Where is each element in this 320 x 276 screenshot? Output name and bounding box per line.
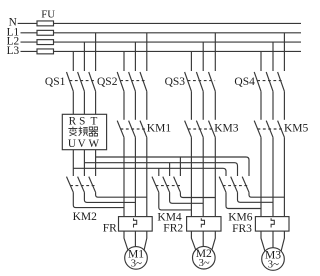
svg-text:S: S (79, 116, 85, 128)
switch QS4 linkage (dashed) (257, 80, 284, 82)
wire QS1 pole drops from buses L3 L2 L1 (72, 51, 74, 71)
switch QS2 blades (117, 72, 124, 91)
contactor KM4 linkage (dashed) (156, 185, 181, 187)
contactor KM5 blades (254, 121, 261, 138)
fuse FU box on bus L2 (37, 40, 54, 45)
contactor KM5 linkage (dashed) (258, 128, 285, 130)
svg-text:KM4: KM4 (157, 211, 182, 223)
svg-text:U: U (68, 138, 76, 150)
wire QS1 to inverter inputs R S T (72, 91, 74, 114)
wire bus L2 (21, 41, 302, 43)
svg-text:3~: 3~ (268, 259, 279, 270)
wire KM4 outputs join motor feeders (staircase) (159, 192, 192, 210)
svg-text:R: R (69, 116, 77, 128)
switch QS1 blades (67, 72, 74, 91)
svg-text:QS4: QS4 (234, 76, 255, 88)
contactor KM2 linkage (dashed) (70, 185, 95, 187)
wire V-phase tap bus to KM6 (84, 163, 237, 176)
wire QS output to KM1 (123, 91, 125, 120)
svg-text:FR: FR (103, 223, 117, 235)
wire M1 leads from thermal relay (134, 231, 136, 247)
inverter U1 box (变频器 frequency converter) (62, 114, 106, 149)
wire QS2 pole drops from buses L3 L2 L1 (123, 51, 125, 71)
wire bus L3 (21, 50, 302, 52)
switch QS3 blades (185, 72, 192, 91)
fuse FU box on bus L1 (37, 30, 54, 35)
contactor KM2 blades (67, 177, 74, 193)
svg-text:QS3: QS3 (165, 76, 186, 88)
svg-text:L3: L3 (7, 45, 20, 57)
contactor KM4 blades (152, 177, 159, 193)
wire QS4 pole drops from buses L3 L2 L1 (260, 51, 262, 71)
switch QS4 blades (254, 72, 261, 91)
fuse FU box on bus L3 (37, 49, 54, 54)
wire KM5 output feeders down to thermal relay (260, 137, 262, 216)
switch QS1 linkage (dashed) (70, 80, 96, 82)
svg-text:QS2: QS2 (97, 76, 118, 88)
thermal relay FR2 box (187, 217, 221, 232)
svg-text:KM6: KM6 (228, 212, 253, 224)
wire KM2 outputs join motor feeders (staircase) (73, 192, 124, 207)
thermal relay FR2 heater element symbol (201, 218, 204, 227)
contactor KM6 linkage (dashed) (223, 185, 249, 187)
wire QS output to KM5 (260, 91, 262, 120)
svg-text:KM3: KM3 (214, 123, 239, 135)
svg-text:3~: 3~ (199, 258, 210, 269)
svg-text:V: V (78, 138, 86, 150)
fuse FU box on bus N (37, 21, 54, 26)
thermal relay FR1 heater element symbol (134, 218, 137, 227)
wire bus N (18, 22, 301, 24)
inverter U1 name 变频器 (drawn glyph strokes) (68, 127, 98, 136)
switch QS3 linkage (dashed) (188, 80, 216, 82)
svg-text:FR3: FR3 (232, 223, 252, 235)
wire W-phase tap bus to KM6 (96, 157, 249, 176)
svg-text:3~: 3~ (131, 258, 142, 269)
svg-text:T: T (90, 116, 97, 128)
thermal relay FR3 heater element symbol (271, 218, 274, 227)
wire KM6 outputs join motor feeders (staircase) (226, 192, 261, 208)
contactor KM1 linkage (dashed) (121, 128, 147, 130)
wire KM4 pole drops from tap buses (158, 168, 160, 176)
wire QS output to KM3 (190, 91, 192, 120)
contactor KM6 blades (219, 177, 226, 193)
wire QS3 pole drops from buses L3 L2 L1 (190, 51, 192, 71)
motor M1 circle (125, 247, 148, 270)
switch QS2 linkage (dashed) (120, 80, 146, 82)
svg-text:KM2: KM2 (73, 211, 98, 223)
wire KM1 output feeders down to thermal relay (123, 137, 125, 216)
wire bus L1 (21, 32, 302, 34)
svg-text:FR2: FR2 (163, 223, 183, 235)
motor M3 circle (262, 248, 285, 271)
motor M2 circle (193, 246, 216, 269)
svg-text:KM5: KM5 (284, 123, 309, 135)
svg-text:KM1: KM1 (147, 123, 172, 135)
wire inverter outputs U V W down to KM2 (72, 150, 74, 176)
svg-text:QS1: QS1 (45, 76, 66, 88)
thermal relay FR1 box (119, 217, 153, 232)
thermal relay FR3 box (255, 217, 289, 232)
wire U-phase tap bus to KM6 (73, 168, 226, 176)
contactor KM3 linkage (dashed) (188, 128, 215, 130)
contactor KM1 blades (117, 121, 124, 138)
wire M3 leads from thermal relay (272, 231, 274, 248)
contactor KM3 blades (185, 121, 192, 138)
wire M2 leads from thermal relay (202, 231, 204, 246)
wire KM3 output feeders down to thermal relay (190, 137, 192, 216)
svg-text:W: W (89, 138, 100, 150)
svg-text:FU: FU (41, 9, 55, 21)
